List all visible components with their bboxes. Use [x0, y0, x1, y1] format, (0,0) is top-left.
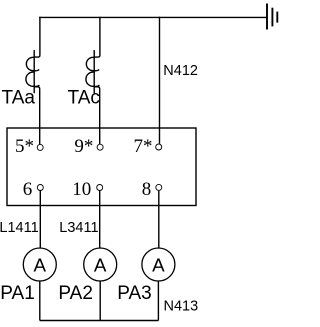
svg-text:6: 6 [23, 179, 33, 200]
svg-text:A: A [34, 255, 47, 276]
wire: TAa secondary to pin 5* [34, 87, 40, 145]
wire: PA1 to bottom bus [39, 281, 41, 320]
ammeter PA1 [23, 248, 56, 281]
terminal 5* [37, 144, 43, 150]
svg-text:PA1: PA1 [0, 283, 35, 304]
svg-text:A: A [152, 255, 165, 276]
wire: phase A drop from bus [34, 17, 40, 57]
wire: pin 8 to PA3 [158, 191, 160, 248]
current transformer TAc [86, 50, 99, 93]
wire: TAc secondary to pin 9* [94, 87, 100, 145]
wire: PA2 to bottom bus [99, 281, 101, 320]
terminal 7* [156, 144, 162, 150]
svg-text:8: 8 [142, 179, 152, 200]
svg-text:PA3: PA3 [117, 283, 152, 304]
svg-text:9*: 9* [74, 136, 93, 157]
terminal 6 [37, 185, 43, 191]
svg-text:A: A [94, 255, 107, 276]
svg-text:L3411: L3411 [59, 220, 98, 236]
terminal 9* [97, 144, 103, 150]
wire: net L1411 pin 6 to PA1 [39, 191, 41, 248]
wire: phase C drop from bus [94, 17, 100, 57]
ground [267, 4, 277, 30]
svg-text:TAc: TAc [68, 88, 100, 109]
terminal block box [7, 128, 196, 206]
svg-text:TAa: TAa [2, 88, 36, 109]
terminal 10 [97, 185, 103, 191]
svg-text:L1411: L1411 [0, 220, 39, 236]
current transformer TAa [26, 50, 39, 93]
svg-text:10: 10 [72, 179, 91, 200]
wire: net L3411 pin 10 to PA2 [99, 191, 101, 248]
wire: top bus [39, 16, 267, 18]
wire: net N412 to pin 7* [159, 17, 161, 144]
svg-text:N412: N412 [163, 63, 198, 79]
ammeter PA3 [142, 248, 175, 281]
terminal 8 [156, 184, 162, 190]
svg-text:5*: 5* [15, 136, 34, 157]
ammeter PA2 [84, 248, 117, 281]
wire: net N413 bottom bus [40, 320, 159, 322]
svg-text:PA2: PA2 [58, 283, 93, 304]
svg-text:N413: N413 [164, 298, 199, 314]
svg-text:7*: 7* [134, 136, 153, 157]
wire: PA3 to bottom bus [157, 281, 159, 320]
